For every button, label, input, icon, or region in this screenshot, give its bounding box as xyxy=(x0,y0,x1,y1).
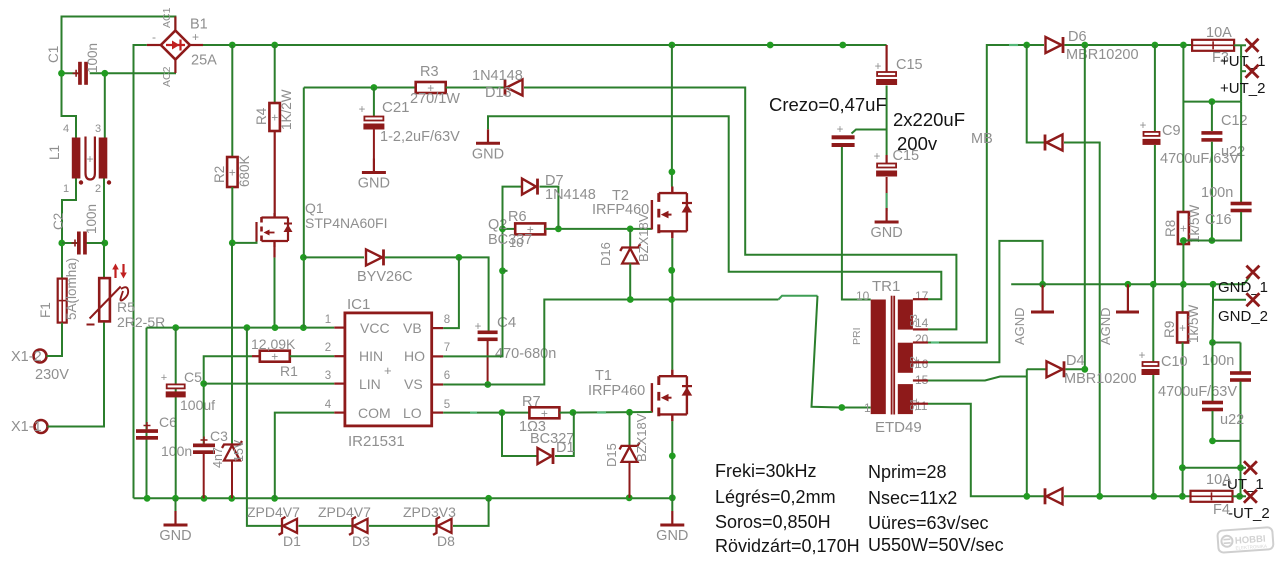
resistor R2 680K xyxy=(231,45,233,157)
svg-text:IR21531: IR21531 xyxy=(348,433,405,450)
wire VCC row (IC1 pin1) xyxy=(147,327,335,329)
node C2 right junction xyxy=(101,240,108,247)
wire highlight dash LO row 2 xyxy=(597,411,606,413)
svg-text:VB: VB xyxy=(403,320,422,336)
wire C12 bottom xyxy=(1211,142,1213,241)
resistor R7 xyxy=(529,407,559,418)
transistor T1 IRFP460 xyxy=(651,383,653,413)
svg-text:BZX18V: BZX18V xyxy=(636,213,651,262)
svg-text:GND_2: GND_2 xyxy=(1218,308,1268,325)
svg-text:C21: C21 xyxy=(382,99,410,116)
node GND_1 snubber col xyxy=(1210,281,1217,288)
inductor L1 common-mode choke xyxy=(72,138,81,179)
wire D13 to aux winding (S3 pin14) xyxy=(524,88,956,330)
svg-text:T1: T1 xyxy=(595,368,612,384)
fuse F3 10A xyxy=(1192,40,1234,51)
wire X1-2 to F1 xyxy=(47,323,63,356)
svg-text:R1: R1 xyxy=(280,363,298,379)
node C9 tap xyxy=(1152,42,1159,49)
wire C9 column xyxy=(1154,45,1156,132)
svg-text:470-680n: 470-680n xyxy=(495,346,556,362)
svg-text:+: + xyxy=(229,166,236,180)
node VCC zener feed tap xyxy=(244,324,251,331)
svg-text:STP4NA60FI: STP4NA60FI xyxy=(305,215,387,231)
svg-text:4: 4 xyxy=(325,399,332,411)
wire D4 cathode to +rail column xyxy=(1066,45,1085,369)
ground GND (C21) xyxy=(373,159,375,173)
wire F4 to -UT_2 xyxy=(1233,495,1247,497)
zener diode D16 BZX18V (T2 gate clamp) xyxy=(629,229,631,248)
terminal X1-1 xyxy=(35,420,48,433)
svg-text:X1-2: X1-2 xyxy=(11,349,42,365)
svg-text:Nsec=11x2: Nsec=11x2 xyxy=(868,488,957,508)
capacitor C12 u22 xyxy=(1211,102,1213,131)
svg-text:Rövidzárt=0,170H: Rövidzárt=0,170H xyxy=(715,536,860,556)
wire highlight dash LO row 1 xyxy=(470,412,477,414)
wire R9 column xyxy=(1182,284,1184,313)
wire highlight dash top rail xyxy=(1009,44,1018,46)
wire GND tap to S3 pin17 xyxy=(488,116,941,299)
wire R6 row xyxy=(503,228,516,230)
node AC1 junction xyxy=(58,70,65,77)
svg-text:6: 6 xyxy=(444,370,450,382)
svg-text:+UT_1: +UT_1 xyxy=(1220,53,1265,70)
wire L1 pin1 to C2 left and F1 xyxy=(62,179,76,279)
wire B1 minus rail down to GND bus xyxy=(134,45,147,498)
svg-text:HIN: HIN xyxy=(359,348,383,364)
node bottom row leg tap xyxy=(1023,493,1030,500)
resistor R9 1k/5W xyxy=(1177,313,1188,343)
ground AGND 2 xyxy=(1127,284,1129,312)
wire ZPD zener chain feed from VCC xyxy=(247,328,282,526)
svg-text:GND: GND xyxy=(656,528,688,544)
node R9/-UT_1 row xyxy=(1179,464,1186,471)
svg-text:GND: GND xyxy=(159,528,191,544)
node 100n/F4 out xyxy=(1236,493,1243,500)
svg-text:+: + xyxy=(271,111,278,125)
svg-text:1: 1 xyxy=(63,183,69,195)
svg-text:ZPD4V7: ZPD4V7 xyxy=(318,504,371,520)
svg-text:R8: R8 xyxy=(1163,220,1178,237)
svg-text:ETD49: ETD49 xyxy=(875,419,922,436)
svg-text:C1: C1 xyxy=(46,46,61,63)
node C12 bottom xyxy=(1209,237,1216,244)
capacitor C16 100n xyxy=(1231,202,1252,206)
node AGND junction xyxy=(1039,281,1046,288)
node VCC C5 tap xyxy=(172,324,179,331)
wire +UT_2 branch xyxy=(1240,45,1242,101)
watermark HOBBI Elektronika logo xyxy=(1217,527,1273,553)
svg-text:C12: C12 xyxy=(1221,113,1248,129)
diode D14 speedup (across R7) xyxy=(502,413,537,456)
resistor R4 1K/2W xyxy=(274,45,276,103)
svg-text:GND_1: GND_1 xyxy=(1218,279,1268,296)
wire T2 drain from +rail xyxy=(671,45,673,187)
pin lead TR1 pin14 xyxy=(913,328,928,330)
node D7 right junction xyxy=(555,226,562,233)
svg-text:F1: F1 xyxy=(38,302,53,318)
svg-text:MB: MB xyxy=(971,131,993,147)
node GND bus T1 source xyxy=(669,494,676,501)
svg-text:-: - xyxy=(152,30,156,44)
svg-text:Nprim=28: Nprim=28 xyxy=(868,462,947,482)
node AC2 junction xyxy=(101,70,108,77)
svg-text:C5: C5 xyxy=(184,369,202,385)
node 100n/-UT_1 xyxy=(1237,464,1244,471)
wire +rail top bus from B1 to C15 xyxy=(203,44,887,46)
zener diode D8 ZPD3V3 xyxy=(438,519,452,533)
diode MB upper-lower (leg2) xyxy=(1047,135,1063,151)
op-amp IC1 IR21531 xyxy=(345,313,432,426)
wire +UT_2 snubber row xyxy=(1183,101,1241,103)
wire GND_1 row xyxy=(1011,276,1250,284)
svg-text:1: 1 xyxy=(325,314,331,326)
resistor R3 270/1W xyxy=(416,82,446,93)
capacitor 100n (lower) xyxy=(1240,343,1242,373)
svg-text:VS: VS xyxy=(404,376,423,392)
svg-text:1K/2W: 1K/2W xyxy=(279,89,294,130)
wire C15 lower to GND xyxy=(886,177,888,208)
diode MB lower (leg2 bottom) xyxy=(1047,488,1063,504)
node VS T column xyxy=(668,296,675,303)
wire AC1 net (C1 left to bridge AC1) xyxy=(62,17,176,74)
svg-text:C10: C10 xyxy=(1161,354,1188,370)
node +rail R4 tap xyxy=(271,42,278,49)
node bottom row C10 xyxy=(1150,493,1157,500)
node T2 gate junction xyxy=(627,226,634,233)
wire C9 to GND_1 row xyxy=(1154,145,1156,284)
wire C16 column xyxy=(1240,102,1242,202)
svg-text:10: 10 xyxy=(509,235,523,250)
ground GND main xyxy=(175,498,177,511)
svg-text:C3: C3 xyxy=(210,428,228,444)
wire L1 pin2 to C2 right and R5 xyxy=(103,179,105,278)
node R8/snubber row xyxy=(1180,237,1187,244)
svg-text:7: 7 xyxy=(444,342,450,354)
wire highlight dash pin20 row xyxy=(931,341,939,343)
pin 6 VS stub xyxy=(432,383,444,385)
pin lead TR1 pin15 xyxy=(913,379,928,381)
svg-text:10A: 10A xyxy=(1206,25,1232,41)
svg-text:L1: L1 xyxy=(47,145,62,160)
svg-text:5A(lomha): 5A(lomha) xyxy=(64,258,79,320)
diode D7 1N4148 speedup xyxy=(503,187,522,229)
wire R9 bottom to -UT rows xyxy=(1182,343,1184,497)
svg-text:GND: GND xyxy=(870,225,902,241)
svg-text:LIN: LIN xyxy=(359,376,381,392)
node LO left junction xyxy=(499,409,506,416)
wire LO row xyxy=(443,412,529,414)
svg-text:D15: D15 xyxy=(604,443,619,467)
resistor R8 1k/5W xyxy=(1178,212,1189,244)
transformer TR1 ETD49 xyxy=(871,300,886,415)
svg-text:15V: 15V xyxy=(232,439,246,462)
wire AC1 to L1 pin4 xyxy=(62,73,77,137)
svg-text:+: + xyxy=(1139,350,1146,362)
svg-text:AGND: AGND xyxy=(1012,307,1027,345)
wire C4 bottom to VS row xyxy=(487,341,489,385)
svg-text:16: 16 xyxy=(915,357,929,371)
node C4/VS junction xyxy=(484,381,491,388)
svg-text:+: + xyxy=(874,151,881,163)
wire GND_2 branch xyxy=(1213,284,1246,300)
wire D6 cathode to output fuse F3 xyxy=(1065,44,1193,46)
node GND bus C5/GND xyxy=(172,495,179,502)
svg-text:4700uF/63V: 4700uF/63V xyxy=(1158,384,1237,400)
svg-text:PRI: PRI xyxy=(851,327,863,345)
svg-text:17: 17 xyxy=(915,289,929,303)
wire T2 source to VS bus xyxy=(671,238,673,299)
svg-text:R9: R9 xyxy=(1162,321,1177,338)
capacitor C1 100n xyxy=(78,62,82,85)
capacitor Crezo 0,47uF xyxy=(832,135,855,139)
zener diode D1 ZPD4V7 xyxy=(282,525,283,527)
zener diode 15V (C3 companion) xyxy=(224,446,240,461)
svg-text:IRFP460: IRFP460 xyxy=(588,383,645,399)
wire COM row (IC1 pin4) xyxy=(275,413,335,499)
terminal GND_2 xyxy=(1246,293,1259,306)
wire C10 bottom xyxy=(1152,375,1154,496)
node GND_1 R8 xyxy=(1180,281,1187,288)
wire C2 row xyxy=(62,242,77,244)
svg-text:C4: C4 xyxy=(497,314,516,331)
svg-text:4n7: 4n7 xyxy=(211,447,225,468)
svg-text:R5: R5 xyxy=(117,299,135,315)
wire T1 drain from VS bus xyxy=(671,300,673,370)
wire lower snubber row xyxy=(1213,342,1241,344)
svg-text:C15: C15 xyxy=(896,57,923,73)
svg-text:Légrés=0,2mm: Légrés=0,2mm xyxy=(715,487,836,507)
svg-text:+: + xyxy=(837,124,844,136)
wire D1 to D3 xyxy=(299,525,353,527)
svg-text:D4: D4 xyxy=(1066,353,1085,369)
terminal X1-2 230V xyxy=(34,350,47,363)
node R7 right junction xyxy=(570,409,577,416)
wire D3 to D8 xyxy=(369,525,436,527)
svg-text:HO: HO xyxy=(404,348,425,364)
node D12 row tap xyxy=(300,254,307,261)
wire GND bus xyxy=(134,497,673,499)
svg-text:+: + xyxy=(875,61,882,73)
wire R8 column xyxy=(1182,45,1184,212)
svg-text:+: + xyxy=(86,152,93,166)
node T2 source xyxy=(668,267,675,274)
svg-text:AGND: AGND xyxy=(1098,307,1113,345)
svg-text:GND: GND xyxy=(472,146,504,162)
resistor R5 2R2-5R NTC xyxy=(99,278,110,321)
svg-text:R4: R4 xyxy=(254,107,269,125)
wire VB riser to pin8 xyxy=(443,257,459,328)
wire D12 to VB riser and C4 xyxy=(385,257,489,331)
capacitor C10 4700uF/63V xyxy=(1143,362,1159,366)
node HO riser junction xyxy=(499,267,506,274)
diode D12 BYV26C xyxy=(366,249,382,265)
pin lead TR1 pin17 xyxy=(913,298,928,300)
wire C15 mid node xyxy=(886,86,888,130)
wire C21/R3 node row xyxy=(304,87,416,89)
svg-text:3: 3 xyxy=(325,370,331,382)
wire R8 bottom to GND_1 row xyxy=(1182,238,1184,284)
svg-text:D3: D3 xyxy=(352,533,370,549)
terminal -UT_1 xyxy=(1244,461,1257,474)
node VS primary bottom xyxy=(838,404,845,411)
node +rail junction xyxy=(767,42,774,49)
node GND bus zener 15V xyxy=(228,495,235,502)
wire D4 row xyxy=(1027,368,1046,370)
svg-text:11: 11 xyxy=(915,399,928,413)
wire D12 row xyxy=(304,256,364,258)
wire F3 to +UT_1 terminal xyxy=(1234,44,1246,46)
svg-text:D8: D8 xyxy=(437,533,455,549)
wire HO riser xyxy=(443,229,502,357)
zener diode D15 BZX18V (T1 gate clamp) xyxy=(629,412,631,446)
resistor R1 12,09K xyxy=(204,356,252,383)
wire R6 to T2 gate xyxy=(545,228,652,230)
wire 100n bottom xyxy=(1240,382,1242,497)
node D6 out xyxy=(1081,42,1088,49)
pin 5 LO stub xyxy=(432,412,444,414)
svg-text:R3: R3 xyxy=(420,64,439,80)
transistor Q1 STP4NA60FI xyxy=(255,222,257,242)
svg-text:ZPD3V3: ZPD3V3 xyxy=(403,504,456,520)
svg-text:C16: C16 xyxy=(1205,212,1232,228)
svg-text:-UT_2: -UT_2 xyxy=(1228,505,1270,522)
wire C21 to GND xyxy=(373,130,375,159)
node T1 source mid xyxy=(669,453,676,460)
node +rail R2 tap xyxy=(229,42,236,49)
pin lead TR1 pin20 xyxy=(913,341,928,343)
svg-text:ZPD4V7: ZPD4V7 xyxy=(247,504,300,520)
svg-text:D1: D1 xyxy=(283,533,301,549)
svg-text:C9: C9 xyxy=(1162,123,1181,139)
node VS D16 xyxy=(627,296,634,303)
svg-text:680K: 680K xyxy=(237,155,252,187)
pin lead TR1 pin16 xyxy=(913,361,928,363)
terminal +UT_1 xyxy=(1246,39,1259,52)
wire C5 column from VCC row to GND bus xyxy=(175,328,177,499)
node C12 top xyxy=(1209,98,1216,105)
svg-text:IC1: IC1 xyxy=(347,296,370,313)
wire D12 column (C21 node down to VCC) xyxy=(303,88,305,328)
wire D4 leg column xyxy=(1026,369,1028,496)
svg-text:230V: 230V xyxy=(35,367,69,383)
pin 3 LIN stub xyxy=(334,383,345,385)
capacitor u22 (lower) xyxy=(1212,343,1214,403)
node GND bus COM xyxy=(271,495,278,502)
svg-text:1k/5W: 1k/5W xyxy=(1186,304,1201,343)
svg-text:200v: 200v xyxy=(897,133,938,154)
svg-text:+: + xyxy=(1180,222,1187,236)
svg-text:D13: D13 xyxy=(485,85,512,101)
wire bottom row to fuse F4 xyxy=(1064,495,1190,497)
svg-text:C6: C6 xyxy=(159,414,177,430)
svg-text:BYV26C: BYV26C xyxy=(357,269,413,285)
node u22 bottom xyxy=(1209,438,1216,445)
svg-text:100n: 100n xyxy=(1201,185,1233,201)
svg-text:14: 14 xyxy=(915,316,929,330)
wire S1 top (pin15) to D4 leg xyxy=(928,377,1027,381)
node GND_1 C9 xyxy=(1150,281,1157,288)
ground AGND 1 xyxy=(1041,284,1043,312)
svg-text:20: 20 xyxy=(915,332,929,346)
svg-text:8: 8 xyxy=(444,314,450,326)
pin lead TR1 pin11 xyxy=(913,403,928,405)
node bottom row R9 xyxy=(1179,493,1186,500)
wire S2 bottom (pin16) to AGND xyxy=(928,241,1043,362)
fuse F1 5A(lomha) xyxy=(58,279,67,323)
svg-text:2: 2 xyxy=(325,342,331,354)
wire Crezo bottom to TR1 primary top (pin10) xyxy=(842,147,871,300)
wire Q1 source to VCC xyxy=(273,241,275,258)
svg-text:D1: D1 xyxy=(556,440,575,456)
diode D6 MBR10200 xyxy=(1046,37,1062,53)
svg-text:Soros=0,850H: Soros=0,850H xyxy=(715,512,831,532)
svg-text:TR1: TR1 xyxy=(872,278,900,295)
wire R3 to D13 xyxy=(446,87,505,89)
wire u22 bottom row xyxy=(1213,411,1241,441)
svg-text:1: 1 xyxy=(864,401,871,415)
terminal +UT_2 xyxy=(1246,65,1259,78)
svg-text:+: + xyxy=(161,372,167,384)
svg-text:+: + xyxy=(475,321,482,333)
svg-text:LO: LO xyxy=(403,405,422,421)
capacitor C3 4n7 xyxy=(203,384,205,444)
node bottom row col2 xyxy=(1096,493,1103,500)
svg-text:AC1: AC1 xyxy=(161,7,173,28)
ground GND (T1 column) xyxy=(671,498,673,511)
svg-text:C2: C2 xyxy=(51,213,66,230)
svg-text:1N4148: 1N4148 xyxy=(545,187,596,203)
ground GND (HIN net) xyxy=(487,129,489,143)
capacitor C21 1-2,2uF/63V xyxy=(373,88,375,117)
diode D13 1N4148 xyxy=(507,80,523,96)
wire C15 mid to Crezo cap xyxy=(852,130,887,134)
terminal -UT_2 xyxy=(1244,490,1257,503)
svg-text:10A: 10A xyxy=(1206,472,1232,488)
svg-text:U550W=50V/sec: U550W=50V/sec xyxy=(868,535,1004,555)
pin 1 VCC stub xyxy=(334,327,345,329)
svg-text:Crezo=0,47uF: Crezo=0,47uF xyxy=(769,94,887,115)
svg-text:AC2: AC2 xyxy=(161,66,173,87)
svg-text:+: + xyxy=(359,104,366,116)
svg-text:GND: GND xyxy=(358,176,390,192)
svg-text:Freki=30kHz: Freki=30kHz xyxy=(715,461,817,481)
capacitor C4 470-680n xyxy=(478,331,498,335)
svg-text:+: + xyxy=(384,363,392,378)
svg-text:Q2: Q2 xyxy=(488,217,507,233)
wire AC2 to L1 pin3 xyxy=(104,73,106,137)
pin 8 VB stub xyxy=(432,327,444,329)
node GND_1 AGND2 xyxy=(1125,281,1132,288)
wire lower snubber column xyxy=(1212,300,1215,343)
svg-text:1-2,2uF/63V: 1-2,2uF/63V xyxy=(380,129,460,145)
node D6 anode rail xyxy=(1023,42,1030,49)
diode D4 MBR10200 xyxy=(1047,361,1063,377)
capacitor C6 100n xyxy=(136,429,158,433)
capacitor C2 100n xyxy=(77,232,81,255)
node R1/LIN junction xyxy=(200,380,207,387)
node C2 left junction xyxy=(58,240,65,247)
zener diode D3 ZPD4V7 xyxy=(354,519,368,533)
svg-text:1k/5W: 1k/5W xyxy=(1187,204,1202,243)
svg-text:25A: 25A xyxy=(191,53,217,69)
node GND bus C3 xyxy=(201,495,208,502)
svg-text:+: + xyxy=(192,30,199,44)
terminal GND_1 xyxy=(1246,266,1259,279)
svg-text:Uüres=63v/sec: Uüres=63v/sec xyxy=(868,513,989,533)
svg-text:D16: D16 xyxy=(598,242,613,266)
capacitor C9 4700uF/63V xyxy=(1144,132,1160,136)
